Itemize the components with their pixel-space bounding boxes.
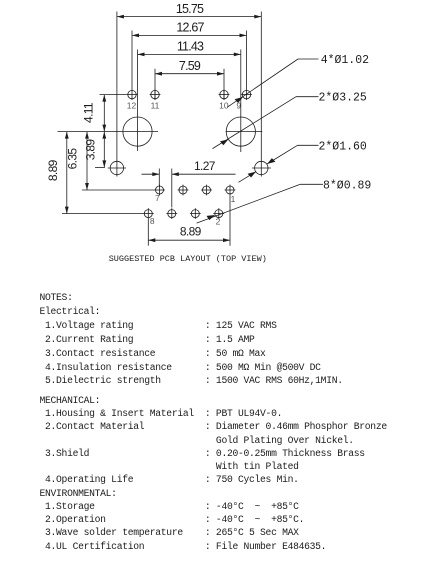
svg-text:12.67: 12.67 bbox=[176, 21, 204, 35]
dim 1.27 bbox=[142, 159, 236, 208]
ext line row B (pins 8-2) bbox=[62, 213, 144, 215]
svg-text:15.75: 15.75 bbox=[176, 2, 204, 16]
dim 11.43 bbox=[138, 40, 241, 57]
dim 7.59 bbox=[155, 59, 224, 76]
dim 8.89 left bbox=[46, 132, 69, 214]
hole pin5 bbox=[178, 185, 189, 196]
svg-text:7.59: 7.59 bbox=[179, 59, 201, 73]
svg-text:10: 10 bbox=[219, 101, 229, 111]
svg-text:4.11: 4.11 bbox=[81, 102, 95, 123]
ext line pin11 column bbox=[154, 69, 156, 100]
hole pin10 bbox=[219, 89, 230, 100]
svg-text:8*Ø0.89: 8*Ø0.89 bbox=[323, 179, 371, 192]
hole pin7 bbox=[154, 185, 165, 196]
svg-text:2*Ø1.60: 2*Ø1.60 bbox=[319, 140, 367, 153]
hole pin11 bbox=[150, 89, 161, 100]
hole pin8 bbox=[143, 208, 154, 219]
svg-text:1: 1 bbox=[231, 194, 236, 204]
ext line pin10 column bbox=[223, 69, 225, 100]
leader 2*O3.25 bbox=[213, 92, 367, 149]
notes: electrical section bbox=[40, 291, 343, 388]
center line through left big hole bbox=[58, 131, 159, 133]
dim 8.89 bottom bbox=[148, 195, 230, 245]
svg-text:SUGGESTED PCB LAYOUT (TOP VIEW: SUGGESTED PCB LAYOUT (TOP VIEW) bbox=[109, 254, 267, 264]
svg-text:12: 12 bbox=[127, 101, 137, 111]
ext line pin12 column bbox=[131, 31, 133, 101]
dim 15.75 bbox=[117, 2, 261, 18]
svg-text:4*Ø1.02: 4*Ø1.02 bbox=[321, 54, 369, 67]
svg-text:3.89: 3.89 bbox=[84, 139, 98, 161]
ext line left big hole axis bbox=[137, 50, 139, 152]
big hole left 3.25 bbox=[123, 117, 152, 146]
ext line top row left bbox=[100, 94, 127, 96]
dim 6.35 bbox=[65, 132, 89, 190]
hole pin4 bbox=[190, 208, 201, 219]
svg-text:11: 11 bbox=[151, 101, 160, 111]
leader 8*O0.89 bbox=[197, 179, 372, 223]
svg-text:7: 7 bbox=[155, 193, 160, 203]
ext line pin9 column bbox=[246, 31, 248, 101]
svg-text:11.43: 11.43 bbox=[177, 40, 204, 54]
hole pin2 bbox=[213, 208, 224, 219]
hole pin12 bbox=[127, 90, 138, 98]
dim 3.89 bbox=[84, 132, 107, 168]
hole 1.60 left bbox=[108, 161, 126, 174]
svg-text:6.35: 6.35 bbox=[65, 148, 79, 170]
dim 12.67 bbox=[132, 21, 247, 38]
notes: mechanical + environmental sections bbox=[40, 394, 387, 553]
big hole right 3.25 bbox=[226, 117, 263, 146]
leader 4*O1.02 bbox=[227, 54, 369, 107]
hole pin3 bbox=[201, 185, 212, 196]
svg-text:8.89: 8.89 bbox=[46, 159, 60, 181]
hole pin1 bbox=[225, 185, 236, 196]
ext line row A (pins 7-1) bbox=[82, 189, 155, 191]
dim 4.11 bbox=[81, 95, 106, 132]
hole pin9 bbox=[241, 90, 252, 98]
ext line right 15.75 / vertical axis of right 1.60 hole bbox=[260, 12, 262, 177]
svg-text:9: 9 bbox=[236, 101, 241, 111]
leader 2*O1.60 bbox=[239, 140, 367, 182]
svg-text:8.89: 8.89 bbox=[180, 224, 202, 238]
svg-text:2: 2 bbox=[216, 216, 221, 226]
hole pin6 bbox=[166, 208, 177, 219]
ext line left 15.75 / vertical axis of left 1.60 hole bbox=[116, 12, 118, 177]
svg-text:8: 8 bbox=[150, 216, 155, 226]
ext line right big hole axis bbox=[240, 50, 242, 153]
svg-text:1.27: 1.27 bbox=[194, 159, 216, 173]
svg-text:2*Ø3.25: 2*Ø3.25 bbox=[319, 92, 367, 105]
hole 1.60 right bbox=[252, 161, 271, 174]
